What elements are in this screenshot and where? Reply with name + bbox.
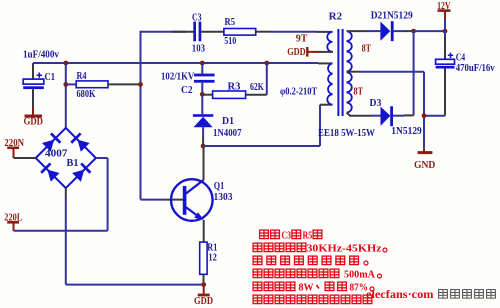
wire 12V rail top xyxy=(414,30,445,32)
capacitor C1 bottom plate xyxy=(23,86,44,89)
svg-text:12: 12 xyxy=(208,251,217,263)
svg-text:R4: R4 xyxy=(77,70,87,82)
power port GDD under C1 xyxy=(32,108,34,116)
svg-text:EE18 5W-15W: EE18 5W-15W xyxy=(318,128,375,139)
capacitor C2 plates xyxy=(194,74,215,77)
capacitor C2 top pin xyxy=(201,63,203,74)
full stop line3 xyxy=(364,261,368,265)
resistor R4 left pin xyxy=(66,83,76,85)
svg-text:470uF/16v: 470uF/16v xyxy=(456,63,495,74)
note line 5: 有效功率8W、效率87%。 xyxy=(253,282,295,291)
transformer secondary bottom 8T winding xyxy=(347,72,352,112)
secondary center tap pin xyxy=(347,71,360,73)
transformer primary 9T top pin xyxy=(316,31,333,33)
svg-text:elecfans·com: elecfans·com xyxy=(366,287,434,301)
note line 3: 输出电压需要稳压。 xyxy=(253,256,358,265)
wire center tap to GND column xyxy=(360,71,424,73)
svg-text:1uF/400v: 1uF/400v xyxy=(23,50,59,61)
transformer primary 210T winding xyxy=(327,63,332,104)
note line 1 hanzi 和 xyxy=(292,230,301,239)
resistor R3 left pin xyxy=(202,94,212,96)
junction dot C2/R3/D1 xyxy=(200,92,205,97)
transformer 9T bottom pin to GDD xyxy=(320,51,334,53)
capacitor C3 right pin xyxy=(201,31,224,33)
svg-text:R2: R2 xyxy=(329,11,343,23)
junction dot bus/C1-bridge column xyxy=(63,61,68,66)
junction dot R4 left xyxy=(63,82,68,87)
secondary top pin xyxy=(347,30,366,32)
full stop line4 xyxy=(378,274,382,278)
capacitor C1 plus sign xyxy=(37,73,42,78)
transistor Q1 circle xyxy=(171,179,213,221)
wire to D2 anode xyxy=(366,30,380,32)
svg-text:GND: GND xyxy=(414,160,436,171)
capacitor C2 bottom pin xyxy=(201,83,203,95)
capacitor C3 left pin xyxy=(172,31,193,33)
svg-text:8T: 8T xyxy=(354,87,364,98)
bridge diamond wires xyxy=(36,128,96,188)
svg-text:102/1KV: 102/1KV xyxy=(161,72,195,83)
wire vertical x=107.6 down xyxy=(107,158,109,231)
svg-text:R5: R5 xyxy=(303,230,313,242)
diode D1 cathode bar xyxy=(193,114,213,117)
bridge diode top-left xyxy=(42,132,62,152)
wire 12V rail down to D3 cathode xyxy=(413,31,415,115)
comma line5 xyxy=(317,285,320,289)
wire top-left corner horizontal xyxy=(141,31,187,33)
svg-text:8T: 8T xyxy=(362,44,372,55)
svg-text:8W: 8W xyxy=(299,282,314,294)
junction dot bus/C2 xyxy=(200,61,205,66)
junction dot 12V rail / D2 xyxy=(411,29,416,34)
bridge bottom pin xyxy=(65,188,67,198)
transformer core lines xyxy=(338,29,342,116)
resistor R4 body xyxy=(76,81,108,88)
svg-text:680K: 680K xyxy=(77,88,96,100)
Q1 base pin xyxy=(164,199,183,201)
svg-text:1N4007: 1N4007 xyxy=(213,128,242,139)
transistor Q1 emitter pin xyxy=(203,220,205,242)
resistor R3 right pin xyxy=(246,94,267,96)
wire 220L horizontal xyxy=(14,230,108,232)
svg-text:φ0.2-210T: φ0.2-210T xyxy=(280,86,317,97)
bridge diode bottom-right xyxy=(72,162,92,182)
junction dot R4 right on x=140.5 column xyxy=(138,82,143,87)
transformer primary 210T top pin xyxy=(318,62,333,64)
svg-text:C1: C1 xyxy=(45,71,56,83)
wire R5 to transformer primary top xyxy=(271,31,316,33)
wire transformer primary bottom column xyxy=(319,105,321,146)
svg-text:62K: 62K xyxy=(250,81,264,93)
capacitor C4 top pin xyxy=(444,31,446,37)
svg-text:C2: C2 xyxy=(181,84,193,96)
wire vertical x=140.5 from top wire down to Q1 base xyxy=(140,31,142,200)
svg-text:C3: C3 xyxy=(282,230,292,242)
transistor Q1 base bar xyxy=(183,186,187,215)
svg-text:103: 103 xyxy=(192,43,206,55)
svg-text:GDD: GDD xyxy=(287,47,306,58)
svg-text:500mA: 500mA xyxy=(344,269,375,281)
junction dot bottom rail / R1 xyxy=(201,282,206,287)
note line 4: 输出电流可以达到500mA。 xyxy=(253,269,339,278)
wire bottom rail xyxy=(66,284,204,286)
power port GDD bottom xyxy=(203,285,205,294)
svg-text:GDD: GDD xyxy=(24,116,44,127)
wire collector node to transformer xyxy=(203,145,320,147)
resistor R5 right pin xyxy=(256,31,271,33)
wire C4 bottom to GND column xyxy=(424,115,445,117)
diode D3 body xyxy=(381,107,391,126)
resistor R4 right pin xyxy=(108,83,140,85)
resistor R1 body xyxy=(200,242,207,274)
svg-text:R5: R5 xyxy=(225,16,236,28)
diode D2 body xyxy=(380,22,390,41)
capacitor C4 plus sign xyxy=(448,53,453,58)
capacitor C1 top pin xyxy=(32,63,34,79)
wire Q1 base horizontal xyxy=(141,199,165,201)
resistor R5 body xyxy=(224,29,256,36)
wire to D3 anode xyxy=(371,115,381,117)
resistor R3 body xyxy=(213,91,246,98)
capacitor C3 plates xyxy=(193,22,196,42)
transistor Q1 collector stroke xyxy=(186,180,204,194)
secondary bottom pin xyxy=(347,113,371,116)
svg-text:4007: 4007 xyxy=(45,148,68,160)
diode D3 cathode pin xyxy=(393,115,404,117)
bridge left pin to 220N xyxy=(14,157,36,159)
capacitor C4 top plate xyxy=(436,59,455,64)
svg-text:D21N5129: D21N5129 xyxy=(371,11,413,22)
svg-text:C4: C4 xyxy=(456,51,466,63)
diode D1 anode pin xyxy=(202,127,204,137)
full stop line5 xyxy=(370,287,374,291)
diode D1 cathode pin xyxy=(201,94,203,114)
svg-text:C3: C3 xyxy=(192,11,202,23)
note line 6: 其他没有要求就可以正常工作 xyxy=(253,295,372,304)
wire GND column vertical xyxy=(423,72,425,149)
svg-text:D1: D1 xyxy=(222,115,234,127)
junction dot GND node xyxy=(422,113,427,118)
wire bridge top column x=65.8 xyxy=(65,63,67,129)
svg-text:R3: R3 xyxy=(228,81,241,93)
svg-text:510: 510 xyxy=(224,35,236,47)
svg-text:30KHz-45KHz: 30KHz-45KHz xyxy=(307,243,382,255)
wire bridge bottom to bottom rail xyxy=(65,198,67,285)
diode D3 cathode bar xyxy=(390,106,393,126)
transformer secondary top 8T winding xyxy=(347,31,352,71)
capacitor C4 bottom plate xyxy=(436,66,455,69)
wire bridge right vertex to x=107.6 xyxy=(96,157,108,159)
junction dot collector node xyxy=(201,144,206,149)
svg-text:GDD: GDD xyxy=(194,296,213,307)
junction dot bus/R3 xyxy=(264,61,269,66)
full stop line2 xyxy=(383,248,387,252)
note line 1 hanzi 使 xyxy=(313,230,322,239)
capacitor C4 bottom pin xyxy=(444,69,446,116)
svg-text:9T: 9T xyxy=(296,34,308,45)
transistor Q1 collector pin xyxy=(203,146,205,180)
transformer primary 9T winding xyxy=(327,32,332,52)
diode D1 body (pointing up) xyxy=(194,117,213,127)
capacitor C1 top plate xyxy=(23,79,44,84)
transistor Q1 emitter stroke with arrow xyxy=(186,207,198,216)
svg-text:B1: B1 xyxy=(67,157,79,169)
svg-text:1303: 1303 xyxy=(214,191,233,203)
transformer primary 210T bottom pin xyxy=(320,104,333,106)
capacitor C1 bottom pin xyxy=(32,89,34,108)
diode D2 cathode bar xyxy=(391,21,394,41)
bridge diode top-right xyxy=(70,132,90,152)
note line 2: 振荡频率在30KHz-45KHz。 xyxy=(253,243,306,252)
svg-text:1N5129: 1N5129 xyxy=(391,126,422,137)
resistor R1 bottom pin xyxy=(203,274,205,284)
diode D2 cathode pin xyxy=(394,30,405,32)
wire main DC bus xyxy=(33,62,318,64)
watermark 电子发烧友 xyxy=(439,290,496,299)
note line 1: 调整C3和R5使 xyxy=(260,230,280,239)
power port GND xyxy=(423,148,425,152)
junction dot 12V rail / C4 xyxy=(443,29,448,34)
svg-text:D3: D3 xyxy=(370,97,382,109)
wire R3 right up to bus xyxy=(266,63,268,95)
bridge diode bottom-left xyxy=(40,162,60,182)
